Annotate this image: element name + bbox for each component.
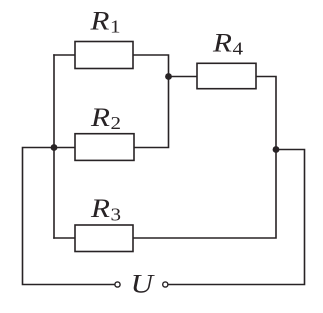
junction node C (right) <box>273 146 280 153</box>
label U (source voltage) <box>131 270 156 299</box>
resistor R4 <box>197 63 256 88</box>
wire R1 left lead <box>54 54 75 56</box>
wire right rail from node C to source terminal <box>168 150 304 285</box>
svg-text:R1: R1 <box>89 6 120 37</box>
label R4 <box>212 28 243 59</box>
wire left rail from node A to source terminal <box>23 148 115 285</box>
wire R4 right lead down to node C <box>256 77 276 150</box>
label R3 <box>90 194 121 225</box>
resistor R3 <box>75 225 133 252</box>
wire node C down to R3 right lead <box>133 150 276 239</box>
resistor R1 <box>75 42 133 69</box>
terminal right of source U <box>163 282 168 287</box>
svg-text:R3: R3 <box>90 194 121 225</box>
wire R2 right lead up to node B <box>134 77 169 148</box>
junction node B (top middle) <box>165 73 172 80</box>
wire R1 right lead down to node B <box>133 55 169 77</box>
svg-text:R4: R4 <box>212 28 243 59</box>
label R1 <box>89 6 120 37</box>
resistor R2 <box>75 134 134 161</box>
wire node B to R4 <box>169 76 198 78</box>
wire R2 left lead <box>54 147 75 149</box>
svg-text:R2: R2 <box>90 103 121 134</box>
terminal left of source U <box>115 282 120 287</box>
label R2 <box>90 103 121 134</box>
svg-text:U: U <box>131 270 156 299</box>
wire left parallel branch vertical <box>53 55 55 238</box>
junction node A (left) <box>51 144 58 151</box>
wire R3 left lead <box>54 237 75 239</box>
